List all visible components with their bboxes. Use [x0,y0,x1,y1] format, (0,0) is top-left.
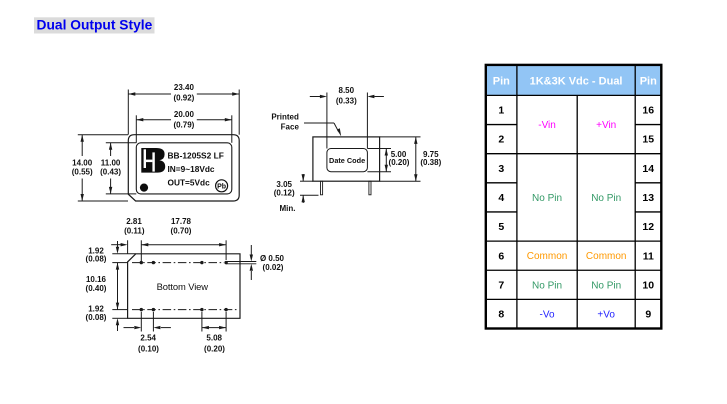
svg-text:Face: Face [281,122,300,131]
svg-text:Pb: Pb [217,184,226,191]
svg-text:9: 9 [645,309,651,321]
svg-text:(0.43): (0.43) [100,168,121,177]
svg-text:Date Code: Date Code [329,156,365,165]
svg-text:1K&3K Vdc - Dual: 1K&3K Vdc - Dual [530,75,623,87]
svg-text:(0.20): (0.20) [389,158,410,167]
svg-text:No Pin: No Pin [591,280,621,291]
svg-text:(0.38): (0.38) [420,158,441,167]
svg-text:2: 2 [498,134,504,146]
svg-text:(0.08): (0.08) [86,254,107,263]
svg-text:10: 10 [642,279,654,291]
svg-text:17.78: 17.78 [171,217,192,226]
svg-text:(0.79): (0.79) [173,120,194,129]
svg-text:(0.02): (0.02) [263,263,284,272]
svg-text:(0.33): (0.33) [336,97,357,106]
svg-text:Pin: Pin [640,75,657,87]
svg-text:Printed: Printed [271,112,299,121]
svg-text:(0.12): (0.12) [274,189,295,198]
svg-text:(0.70): (0.70) [171,226,192,235]
svg-text:13: 13 [642,192,654,204]
svg-text:8.50: 8.50 [339,86,355,95]
svg-text:+Vin: +Vin [596,120,616,131]
svg-text:14: 14 [642,163,654,175]
svg-text:Min.: Min. [280,204,296,213]
svg-text:Pin: Pin [493,75,510,87]
svg-text:(0.92): (0.92) [173,94,194,103]
svg-text:23.40: 23.40 [174,83,195,92]
svg-text:16: 16 [642,105,654,117]
svg-text:Common: Common [586,251,627,262]
svg-text:(0.20): (0.20) [204,344,225,353]
svg-text:(0.10): (0.10) [138,344,159,353]
svg-text:Bottom View: Bottom View [157,281,209,292]
svg-text:4: 4 [498,192,504,204]
svg-text:-Vin: -Vin [538,120,556,131]
svg-text:11: 11 [643,250,654,262]
svg-text:8: 8 [498,309,504,321]
svg-text:2.81: 2.81 [126,217,142,226]
svg-text:+Vo: +Vo [597,309,615,320]
svg-text:11.00: 11.00 [101,158,121,167]
svg-text:5: 5 [498,221,504,233]
svg-text:6: 6 [498,250,504,262]
svg-text:Dual Output Style: Dual Output Style [37,18,153,33]
svg-text:15: 15 [642,134,654,146]
svg-text:20.00: 20.00 [174,110,195,119]
svg-text:No Pin: No Pin [532,280,562,291]
svg-text:(0.55): (0.55) [72,168,93,177]
svg-text:(0.08): (0.08) [86,313,107,322]
svg-text:(0.11): (0.11) [124,226,145,235]
svg-text:5.08: 5.08 [206,334,222,343]
svg-text:Ø 0.50: Ø 0.50 [260,254,285,263]
svg-text:IN=9~18Vdc: IN=9~18Vdc [168,164,215,174]
svg-text:14.00: 14.00 [72,158,93,167]
svg-text:1: 1 [498,105,504,117]
svg-text:2.54: 2.54 [140,334,156,343]
svg-text:3: 3 [498,163,504,175]
svg-text:-Vo: -Vo [540,309,555,320]
svg-text:No Pin: No Pin [591,193,621,204]
svg-text:7: 7 [498,279,504,291]
svg-text:BB-1205S2 LF: BB-1205S2 LF [168,151,224,161]
svg-text:OUT=5Vdc: OUT=5Vdc [168,177,211,187]
svg-text:(0.40): (0.40) [86,284,107,293]
svg-text:Common: Common [527,251,568,262]
svg-text:No Pin: No Pin [532,193,562,204]
svg-text:12: 12 [642,221,654,233]
